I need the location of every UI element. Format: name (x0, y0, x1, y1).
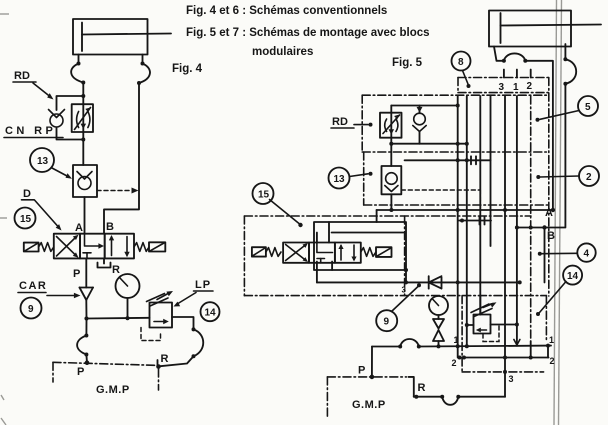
RD bypass loop wire (57, 96, 84, 140)
pressure gauge (Fig5) (429, 296, 448, 319)
node: RD loop bottom (81, 138, 85, 142)
circle 14 (Fig4) (201, 302, 220, 321)
relief 14 input stub (479, 296, 481, 315)
label LP (174, 279, 214, 307)
node: inner box corner junctions (404, 268, 408, 284)
check valve CAR 9 (80, 288, 94, 301)
relief 14 adjustment arrows (471, 302, 497, 316)
wire: port line to A drop (525, 61, 553, 210)
svg-text:8: 8 (458, 57, 464, 68)
svg-text:Fig. 4 et 6 : Schémas conventi: Fig. 4 et 6 : Schémas conventionnels (186, 5, 387, 17)
svg-text:G.M.P: G.M.P (352, 399, 386, 411)
valve 15 (Fig5): left spring (266, 248, 281, 257)
svg-text:9: 9 (384, 317, 390, 328)
svg-text:Fig. 5 et 7 : Schémas de monta: Fig. 5 et 7 : Schémas de montage avec bl… (186, 27, 430, 39)
wire: A line (377, 208, 556, 212)
leader 9 (Fig5) (392, 283, 422, 311)
hose arc right (139, 64, 150, 84)
right boundary dash-dot (548, 78, 550, 297)
wire: line 1 (P feed) (372, 339, 551, 349)
block 13 boundary dash-dot (362, 152, 549, 205)
wire: cyl left port drop (494, 47, 504, 61)
node: gauge on bus (125, 316, 129, 320)
node: RD loop top (81, 94, 85, 98)
R port stub (Fig4) (157, 360, 159, 368)
svg-text:LP: LP (195, 279, 211, 291)
hose arc right (Fig5) (565, 59, 576, 83)
pressure gauge (Fig4) (116, 274, 140, 318)
relief valve LP 14 (Fig4) (150, 303, 173, 328)
svg-text:9: 9 (28, 304, 34, 315)
relief valve 14 (Fig5) (474, 315, 491, 334)
label D (22, 188, 62, 231)
cylinder V2 (489, 11, 601, 47)
node: bus left (84, 316, 88, 320)
node: LP out hose bottom (192, 354, 196, 358)
circle 9 (Fig5) (376, 310, 397, 331)
leader 4 (538, 252, 578, 256)
label 1 right (549, 335, 554, 345)
label P (Fig4 pump) (77, 366, 84, 378)
leader 13 to CNRP box (52, 168, 72, 179)
wire: check 9 line (317, 280, 522, 284)
channel line x490.5 (490, 96, 492, 246)
svg-text:13: 13 (37, 156, 49, 167)
Fig.5 caption (392, 57, 423, 69)
leader 13 (Fig5) (350, 172, 373, 177)
pilot dashes from 13 box (401, 190, 480, 209)
svg-text:Fig. 4: Fig. 4 (172, 63, 203, 75)
label port 1 (513, 82, 519, 93)
node: P hose bottom (84, 353, 88, 357)
label CAR (18, 280, 81, 298)
inner mounting box (Fig5 valve) (314, 222, 406, 270)
header text line 2 (186, 27, 430, 39)
Fig.4 caption (172, 63, 203, 75)
leader 5 (536, 111, 580, 122)
wire: P line from valve to check CAR (85, 258, 87, 287)
wire: LP return to R (159, 356, 194, 366)
R port bracket (Fig5) (409, 377, 414, 397)
circle 2 (579, 166, 599, 186)
node: P port (Fig4 pump) (85, 360, 90, 365)
wire: line 3 dash-dot (462, 370, 543, 374)
wire: B channel down (544, 228, 546, 283)
circle 4 (577, 243, 595, 261)
label RD (Fig5) (331, 116, 373, 128)
svg-text:RD: RD (14, 70, 30, 82)
svg-text:2: 2 (586, 172, 592, 183)
svg-text:P: P (77, 366, 84, 378)
hose arc left (71, 64, 83, 83)
cylinder V1 (73, 19, 171, 55)
check valve 9 (Fig5) (429, 276, 442, 288)
header text line 1 (186, 5, 387, 17)
RD block boundary dash-dot (Fig5) (362, 95, 549, 152)
label 1 left (454, 335, 459, 345)
circle 15 (Fig4) (15, 208, 36, 229)
node: left hose bottom (81, 81, 85, 85)
circle 9 (Fig4) (21, 298, 42, 319)
wire: main line through RD box (82, 96, 84, 165)
directional valve D15: left actuator (24, 243, 39, 252)
leader 14 (Fig5) (536, 282, 566, 317)
svg-text:15: 15 (258, 190, 270, 201)
page edge artifact lines (554, 0, 562, 425)
circle 15 (Fig5) (253, 183, 274, 204)
svg-text:B: B (547, 230, 555, 242)
leader 8 (463, 71, 471, 89)
wire: main line to RD (82, 83, 84, 97)
label 3 (bottom) (509, 374, 514, 384)
svg-text:modulaires: modulaires (252, 46, 313, 58)
directional valve D15: left spring (39, 243, 54, 252)
left margin artifacts (0, 14, 9, 425)
wire: valve P stub A (Fig5) (331, 262, 333, 271)
channel line 1 x517 (516, 96, 518, 346)
wire: 13 box to A line (390, 194, 392, 210)
directional valve D15: right actuator (149, 242, 165, 251)
svg-text:R: R (418, 382, 426, 394)
svg-text:1: 1 (454, 335, 459, 345)
wire: A line from CNRP to valve (84, 197, 86, 234)
RD loop bottom wire (Fig5) (389, 142, 469, 146)
wire: hose to P port (85, 355, 88, 363)
label A (Fig4 valve) (75, 222, 83, 234)
check valve in RD loop (Fig5) (413, 106, 426, 144)
wire: B drop (545, 84, 566, 228)
pump boundary dash-dot (Fig5) (327, 377, 406, 419)
svg-text:CN RP: CN RP (5, 125, 56, 137)
label port 2 (527, 81, 533, 92)
flow control RD box (Fig5) (380, 106, 402, 167)
label R (Fig5 pump) (418, 382, 426, 394)
wire: right connector lines 1-2 (547, 346, 549, 358)
interface line y160 (405, 156, 491, 164)
svg-text:Fig. 5: Fig. 5 (392, 57, 423, 69)
relief LP pilot dashes (141, 328, 161, 341)
node: right hose bottom (137, 81, 141, 85)
circle 5 (578, 96, 598, 116)
wire: B line down right side (104, 83, 139, 234)
node: right hose bottom (Fig5) (563, 82, 567, 86)
label RD (Fig4) (13, 70, 54, 100)
label 3 (valve port) (402, 286, 407, 295)
directional valve D15: body left box with X (54, 234, 80, 259)
label 2 left (452, 358, 457, 368)
relief 14 pilot dashes (483, 326, 499, 342)
dash-dot x404.6 (404, 216, 406, 296)
svg-text:3: 3 (499, 82, 505, 93)
channel line x457.7 (457, 96, 459, 358)
channel line x480.3 (479, 96, 481, 315)
wire: LP outlet (172, 317, 194, 329)
svg-text:R: R (112, 264, 120, 276)
directional valve D15: body middle box (80, 234, 105, 259)
svg-text:13: 13 (334, 174, 346, 185)
label P (Fig4 valve) (73, 268, 80, 280)
top plate boundary dash-dot (458, 78, 549, 93)
svg-text:CAR: CAR (19, 280, 47, 292)
flow control RD box (72, 104, 93, 132)
svg-text:15: 15 (20, 214, 32, 225)
svg-text:2: 2 (452, 358, 457, 368)
label G.M.P (Fig5) (352, 399, 386, 411)
check valve in RD bypass (49, 110, 65, 128)
node: LP out hose top (192, 327, 196, 331)
R drain bracket (Fig4) (98, 258, 111, 267)
node: right hose top (141, 62, 145, 66)
wire: cyl right port drop (564, 44, 566, 59)
directional valve D15: body right box with arrows (105, 234, 134, 259)
valve 15 (Fig5): right spring (361, 248, 376, 257)
svg-text:1: 1 (549, 335, 554, 345)
node: P hose top (84, 334, 88, 338)
wire: P drop (Fig5 pump) (371, 347, 373, 377)
label G.M.P (Fig4) (96, 384, 130, 396)
circle 13 (Fig4) (30, 148, 54, 172)
valve 15 (Fig5): right actuator (376, 247, 392, 257)
node: left hose top (77, 62, 81, 66)
label port 3 (499, 82, 505, 93)
circle 8 (452, 52, 471, 71)
hose arc top (Fig5) (504, 53, 525, 60)
svg-text:1: 1 (513, 82, 519, 93)
wire: A drop into block (376, 210, 378, 222)
svg-text:A: A (545, 207, 553, 219)
relief 14 right connection (491, 323, 519, 327)
node: P port (Fig5 pump) (370, 375, 375, 380)
pilot dashed line from CNRP to B line (97, 188, 139, 194)
check valve box 13 (Fig5) (382, 166, 402, 194)
node: R port (Fig4 pump) (156, 364, 161, 369)
wire: bottom return line (414, 395, 505, 405)
block 15 boundary dash-dot (Fig5) (244, 216, 546, 296)
leader 2 (536, 175, 579, 179)
valve 15 (Fig5): middle box (309, 243, 335, 263)
hose arc LP return (194, 329, 204, 356)
label R (Fig4 valve) (112, 264, 120, 276)
channel stubs above plate (504, 70, 531, 78)
svg-text:R: R (161, 353, 169, 365)
node: top hose right (523, 59, 527, 63)
node: right hose top (Fig5) (563, 57, 567, 61)
relief LP adjustment arrows (147, 291, 174, 306)
svg-text:14: 14 (205, 308, 217, 319)
block 9/14 boundary dash-dot (462, 296, 546, 372)
wire: pump bus (87, 317, 150, 320)
relief drain arrowhead onto line 1 (514, 340, 520, 346)
label P (Fig5 pump) (358, 365, 365, 377)
check valve CNRP box 13 (73, 165, 97, 197)
valve 15 (Fig5): left box X (283, 243, 309, 263)
wire: cylinder left port stub (78, 55, 80, 64)
svg-text:2: 2 (527, 81, 533, 92)
channel line 3 x505 (504, 96, 506, 397)
interface ticks y220.5 (459, 217, 491, 225)
svg-text:G.M.P: G.M.P (96, 384, 130, 396)
label 2 right (550, 356, 555, 366)
channel line 2 x530.7 (530, 96, 532, 358)
pump boundary dash-dot (Fig4) (53, 362, 159, 390)
wire: line 2 (458, 356, 549, 360)
label A (Fig5) (545, 207, 553, 219)
relief 14 left connection (465, 323, 474, 327)
directional valve D15: right spring (134, 243, 149, 252)
svg-text:P: P (73, 268, 80, 280)
node: top hose left (502, 59, 506, 63)
svg-text:B: B (106, 221, 114, 233)
label B (Fig4 valve) (106, 221, 114, 233)
svg-text:4: 4 (584, 249, 590, 260)
wire: valve P stub B (Fig5) (316, 262, 318, 283)
wire: check to bus (85, 300, 87, 319)
svg-text:RD: RD (332, 116, 348, 128)
channel line x466.8 (466, 96, 468, 347)
leader 15 (Fig5) (270, 200, 303, 228)
label B (Fig5) (547, 230, 555, 242)
valve 15 (Fig5): right box arrows (335, 243, 361, 263)
svg-text:14: 14 (567, 271, 579, 282)
circle 13 (Fig5) (329, 168, 350, 189)
wire: valve top stubs (Fig5) (317, 222, 329, 243)
wire: bus down to hose (85, 319, 87, 336)
valve 15 (Fig5): left actuator (252, 247, 266, 256)
wire: B line (Fig5) (515, 225, 547, 229)
svg-text:3: 3 (509, 374, 514, 384)
svg-text:5: 5 (585, 102, 591, 113)
shutoff valve (Fig5) (433, 319, 444, 347)
header text line 3 (252, 46, 313, 58)
hose arc pump P (77, 336, 86, 355)
svg-text:D: D (23, 188, 31, 200)
circle 14 (Fig5) (563, 266, 582, 285)
svg-text:A: A (75, 222, 83, 234)
label CNRP (4, 125, 63, 138)
RD loop top wire (Fig5) (391, 104, 459, 108)
wire: cylinder right port stub (142, 55, 144, 64)
label R (Fig4 pump) (161, 353, 169, 365)
RD throttle symbol (75, 108, 91, 130)
svg-text:P: P (358, 365, 365, 377)
svg-text:2: 2 (550, 356, 555, 366)
